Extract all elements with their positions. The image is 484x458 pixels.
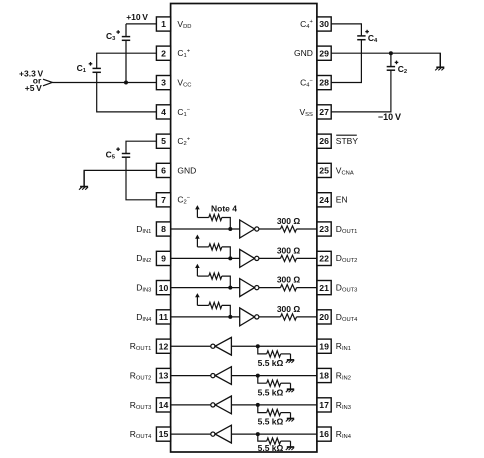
svg-text:300 Ω: 300 Ω <box>277 245 301 255</box>
capacitor C2 <box>387 67 395 71</box>
node junction row 14 <box>256 403 260 407</box>
svg-text:9: 9 <box>161 254 166 264</box>
resistor pull-up row 9 <box>197 244 230 259</box>
wire ROUT3 output <box>171 404 211 406</box>
wire VCC input to pin 3 <box>52 82 156 84</box>
svg-text:12: 12 <box>159 341 169 351</box>
pin 26 label STBY <box>336 135 359 146</box>
buffer driver row 11 <box>240 308 259 326</box>
pin 7 label C2- <box>177 195 190 206</box>
wire inverter to RIN4 <box>231 433 317 435</box>
wire ROUT4 output <box>171 433 211 435</box>
wire C3 to VCC node <box>125 40 127 82</box>
buffer driver row 10 <box>240 279 259 297</box>
ground symbol row 13 <box>286 383 294 392</box>
svg-text:22: 22 <box>319 254 329 264</box>
pin 3 box <box>156 76 170 90</box>
wire DIN3 input <box>171 287 240 289</box>
wire C2 top <box>390 53 392 66</box>
svg-text:17: 17 <box>319 400 329 410</box>
label C1 <box>77 63 87 74</box>
ground symbol left <box>79 170 88 189</box>
label +10 V <box>126 12 148 22</box>
svg-text:10: 10 <box>159 283 169 293</box>
node junction row 8 <box>228 227 232 231</box>
svg-text:7: 7 <box>161 195 166 205</box>
pin 21 box <box>317 281 331 295</box>
resistor 300 ohm row 9 <box>281 255 297 261</box>
svg-text:15: 15 <box>159 429 169 439</box>
pin 24 label EN <box>336 195 348 205</box>
C1 polarity + <box>89 62 93 66</box>
svg-text:11: 11 <box>159 312 168 322</box>
svg-text:2: 2 <box>161 48 166 58</box>
pin 4 label C1- <box>177 107 190 118</box>
pin 4 box <box>156 105 170 119</box>
pin 12 label ROUT1 <box>130 341 152 352</box>
supply arrow row 9 <box>195 235 200 247</box>
pin 30 box <box>317 17 331 31</box>
svg-text:13: 13 <box>159 371 169 381</box>
pin 20 label DOUT4 <box>336 312 358 323</box>
svg-text:26: 26 <box>319 136 329 146</box>
svg-text:30: 30 <box>319 19 329 29</box>
resistor pull-up row 8 <box>197 214 230 229</box>
label C4 <box>368 33 378 44</box>
inverter receiver row 13 <box>211 367 232 385</box>
pin 2 box <box>156 46 170 60</box>
pin 14 box <box>156 398 170 412</box>
wire C5 to pin 7 <box>126 157 156 200</box>
pin 12 box <box>156 339 170 353</box>
supply arrow row 10 <box>195 264 200 276</box>
IC U1 body outline <box>171 4 317 453</box>
input terminal +3.3V/+5V arrow <box>43 79 52 86</box>
node junction row 13 <box>256 374 260 378</box>
supply arrow row 8 <box>195 205 200 217</box>
svg-text:29: 29 <box>319 48 329 58</box>
svg-text:+10 V: +10 V <box>126 12 148 22</box>
pin 25 label VCNA <box>336 165 354 176</box>
svg-text:STBY: STBY <box>336 136 359 146</box>
wire DIN2 input <box>171 257 240 259</box>
wire DIN4 input <box>171 316 240 318</box>
resistor 5.5k row 15 <box>258 434 291 444</box>
pin 17 box <box>317 398 331 412</box>
wire pin 2 to C1 <box>97 53 157 68</box>
wire 300ohm to DOUT1 <box>297 228 317 230</box>
svg-text:EN: EN <box>336 195 348 205</box>
pin 13 box <box>156 368 170 382</box>
wire +10V down to C3 <box>125 24 127 36</box>
label 5.5 kohm row 15 <box>258 443 284 453</box>
pin 29 label GND <box>294 48 313 58</box>
label +3.3 V or +5 V <box>19 68 43 93</box>
resistor 300 ohm row 11 <box>281 314 297 320</box>
wire 300ohm to DOUT4 <box>297 316 317 318</box>
pin 19 label RIN1 <box>336 341 351 352</box>
pin 9 label DIN2 <box>136 253 151 264</box>
inverter receiver row 15 <box>211 425 232 443</box>
svg-text:GND: GND <box>294 48 313 58</box>
pin 5 box <box>156 134 170 148</box>
resistor 300 ohm row 10 <box>281 285 297 291</box>
pin 19 box <box>317 339 331 353</box>
capacitor C3 <box>122 37 130 41</box>
pin 11 box <box>156 310 170 324</box>
wire pin 1 to +10V corner <box>126 23 156 25</box>
resistor 5.5k row 12 <box>258 346 291 357</box>
node junction C3/VCC <box>124 81 128 85</box>
node junction row 10 <box>228 286 232 290</box>
pin 20 box <box>317 310 331 324</box>
label 5.5 kohm row 13 <box>258 387 284 397</box>
C2 polarity + <box>395 61 399 65</box>
wire buffer to 300ohm row 9 <box>259 257 281 259</box>
svg-text:300 Ω: 300 Ω <box>277 304 301 314</box>
pin 5 label C2+ <box>177 136 190 147</box>
supply arrow row 11 <box>195 293 200 305</box>
label 300 ohm row 9 <box>277 245 301 255</box>
pin 11 label DIN4 <box>136 312 152 323</box>
pin 1 box <box>156 17 170 31</box>
pin 22 label DOUT2 <box>336 253 358 264</box>
pin 8 label DIN1 <box>136 224 151 235</box>
wire pin 5 to C5 <box>126 141 156 153</box>
svg-text:4: 4 <box>161 107 166 117</box>
svg-text:16: 16 <box>319 429 329 439</box>
svg-text:5.5 kΩ: 5.5 kΩ <box>258 417 284 427</box>
svg-text:14: 14 <box>159 400 169 410</box>
pin 3 label VCC <box>177 78 191 89</box>
pin 28 label C4- <box>300 78 313 89</box>
resistor pull-up row 11 <box>197 302 230 317</box>
svg-text:18: 18 <box>319 371 329 381</box>
buffer driver row 8 <box>240 220 259 238</box>
pin 18 label RIN2 <box>336 370 351 381</box>
svg-text:27: 27 <box>319 107 329 117</box>
pin 14 label ROUT3 <box>130 400 152 411</box>
resistor 5.5k row 14 <box>258 405 291 416</box>
wire 300ohm to DOUT2 <box>297 257 317 259</box>
node junction row 11 <box>228 315 232 319</box>
C3 polarity + <box>116 30 120 34</box>
wire ROUT1 output <box>171 345 211 347</box>
capacitor C4 <box>357 36 365 40</box>
ground symbol row 14 <box>286 413 294 422</box>
label C3 <box>106 31 116 42</box>
pin 24 box <box>317 193 331 207</box>
label C2 <box>398 64 407 75</box>
pin 6 box <box>156 163 170 177</box>
svg-text:+5 V: +5 V <box>25 83 42 93</box>
ground symbol row 15 <box>286 441 294 450</box>
svg-text:25: 25 <box>319 166 329 176</box>
pin 18 box <box>317 368 331 382</box>
pin 28 box <box>317 76 331 90</box>
pin 30 label C4+ <box>300 19 313 30</box>
svg-text:19: 19 <box>319 341 329 351</box>
pin 9 box <box>156 251 170 265</box>
pin 7 box <box>156 193 170 207</box>
pin 23 box <box>317 222 331 236</box>
resistor 300 ohm row 8 <box>281 226 297 232</box>
wire DIN1 input <box>171 228 240 230</box>
pin 25 box <box>317 163 331 177</box>
svg-text:300 Ω: 300 Ω <box>277 275 301 285</box>
wire buffer to 300ohm row 8 <box>259 228 281 230</box>
label 5.5 kohm row 14 <box>258 417 284 427</box>
pin 27 label VSS <box>299 107 313 118</box>
pin 10 box <box>156 281 170 295</box>
inverter receiver row 12 <box>211 337 232 355</box>
wire buffer to 300ohm row 10 <box>259 287 281 289</box>
pin 8 box <box>156 222 170 236</box>
pin 15 box <box>156 427 170 441</box>
svg-text:−10 V: −10 V <box>378 112 401 122</box>
capacitor C5 <box>122 154 130 158</box>
node junction row 15 <box>256 432 260 436</box>
pin 16 box <box>317 427 331 441</box>
pin 17 label RIN3 <box>336 400 351 411</box>
wire inverter to RIN2 <box>231 375 317 377</box>
pin 26 box <box>317 134 331 148</box>
label -10 V <box>378 112 401 122</box>
svg-text:24: 24 <box>319 195 329 205</box>
svg-text:8: 8 <box>161 224 166 234</box>
wire 300ohm to DOUT3 <box>297 287 317 289</box>
pin 16 label RIN4 <box>336 429 352 440</box>
wire C1 to pin 4 <box>97 72 157 112</box>
svg-text:5: 5 <box>161 136 166 146</box>
label 5.5 kohm row 12 <box>258 358 284 368</box>
capacitor C1 <box>93 68 101 72</box>
pin 15 label ROUT4 <box>130 429 152 440</box>
label Note 4 <box>211 204 237 214</box>
svg-text:5.5 kΩ: 5.5 kΩ <box>258 358 284 368</box>
node junction row 12 <box>256 344 260 348</box>
svg-text:21: 21 <box>319 283 329 293</box>
wire pin 30 to C4 <box>331 24 361 36</box>
wire inverter to RIN1 <box>231 345 317 347</box>
wire pin 6 GND to ground <box>84 170 156 186</box>
pin 6 label GND <box>177 165 196 175</box>
buffer driver row 9 <box>240 249 259 267</box>
C4 polarity + <box>365 30 369 34</box>
pin 1 label VDD <box>177 19 191 30</box>
wire pin 29 GND rail <box>331 53 440 67</box>
svg-text:1: 1 <box>161 19 166 29</box>
wire ROUT2 output <box>171 375 211 377</box>
svg-text:GND: GND <box>177 165 196 175</box>
pin 13 label ROUT2 <box>130 370 152 381</box>
pin 2 label C1+ <box>177 48 190 59</box>
label C5 <box>106 150 116 161</box>
pin 27 box <box>317 105 331 119</box>
label 300 ohm row 11 <box>277 304 301 314</box>
svg-text:Note 4: Note 4 <box>211 204 237 214</box>
ground symbol row 12 <box>286 354 294 363</box>
C5 polarity + <box>116 147 120 151</box>
svg-text:300 Ω: 300 Ω <box>277 216 301 226</box>
resistor pull-up row 10 <box>197 273 230 288</box>
svg-text:3: 3 <box>161 78 166 88</box>
svg-text:23: 23 <box>319 224 329 234</box>
pin 29 box <box>317 46 331 60</box>
svg-text:20: 20 <box>319 312 329 322</box>
wire buffer to 300ohm row 11 <box>259 316 281 318</box>
wire inverter to RIN3 <box>231 404 317 406</box>
svg-text:6: 6 <box>161 166 166 176</box>
pin 10 label DIN3 <box>136 283 151 294</box>
node junction GND/C2 <box>389 51 393 55</box>
svg-text:28: 28 <box>319 78 329 88</box>
pin 23 label DOUT1 <box>336 224 358 235</box>
resistor 5.5k row 13 <box>258 376 291 387</box>
svg-text:5.5 kΩ: 5.5 kΩ <box>258 387 284 397</box>
wire C2 to pin 27 VSS <box>331 70 391 112</box>
pin 21 label DOUT3 <box>336 283 358 294</box>
ground symbol right <box>435 53 444 70</box>
inverter receiver row 14 <box>211 396 232 414</box>
wire C4 to pin 28 <box>331 40 361 83</box>
label 300 ohm row 8 <box>277 216 301 226</box>
node junction row 9 <box>228 256 232 260</box>
svg-text:5.5 kΩ: 5.5 kΩ <box>258 443 284 453</box>
pin 22 box <box>317 251 331 265</box>
label 300 ohm row 10 <box>277 275 301 285</box>
